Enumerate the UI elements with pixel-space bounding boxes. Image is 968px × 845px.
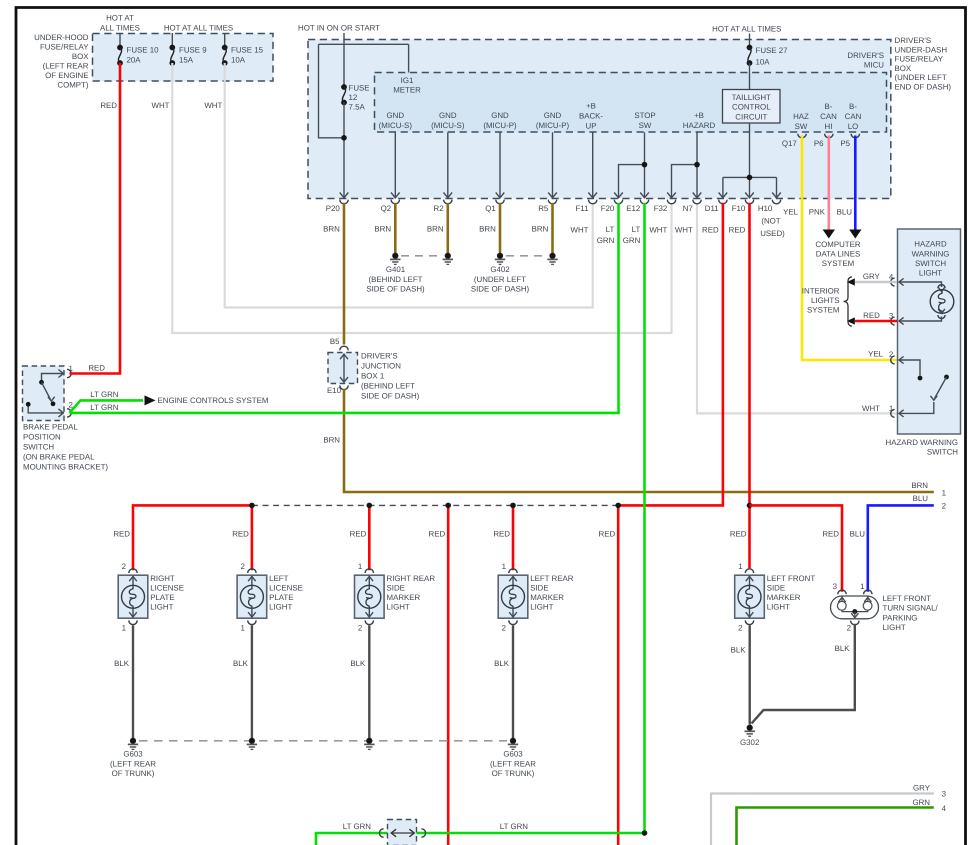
svg-text:HAZARD: HAZARD <box>914 240 947 249</box>
svg-text:GND: GND <box>544 111 562 120</box>
switch box: HAZARD WARNING SWITCH <box>898 229 961 434</box>
svg-text:PNK: PNK <box>809 207 826 216</box>
wire RED fuse 10 to brake switch pin 1 <box>70 63 121 374</box>
svg-text:ALL TIMES: ALL TIMES <box>100 24 140 33</box>
svg-text:(LEFT REAR: (LEFT REAR <box>43 62 89 71</box>
svg-text:BOX: BOX <box>72 52 89 61</box>
svg-text:1: 1 <box>942 488 946 497</box>
pin E12 <box>640 193 649 198</box>
svg-text:BRN: BRN <box>479 225 496 234</box>
wire RED drop to left rear side marker light <box>512 505 515 570</box>
fuse/relay box: DRIVER'S UNDER-DASH FUSE/RELAY BOX <box>308 40 891 199</box>
svg-text:YEL: YEL <box>868 350 884 359</box>
fuse F12 7.5A <box>341 84 347 90</box>
svg-text:HI: HI <box>825 122 833 131</box>
ground G603 (left rear side marker) <box>510 738 516 744</box>
svg-text:2: 2 <box>122 562 126 571</box>
svg-text:WHT: WHT <box>571 226 589 235</box>
svg-text:TURN SIGNAL/: TURN SIGNAL/ <box>883 604 939 613</box>
module box: DRIVER'S MICU (IG1 METER) <box>375 73 887 133</box>
splice bus (dashed) feeding exterior lights <box>252 504 617 506</box>
svg-text:COMPUTER: COMPUTER <box>815 240 860 249</box>
svg-text:1: 1 <box>738 562 742 571</box>
svg-text:HOT AT ALL TIMES: HOT AT ALL TIMES <box>164 24 233 33</box>
wire WHT: fuse 9 to pin F32 <box>172 63 671 333</box>
wire RED pin D11 to lamp splice bus <box>618 203 723 506</box>
svg-text:LIGHTS: LIGHTS <box>811 296 840 305</box>
svg-text:LEFT FRONT: LEFT FRONT <box>883 594 932 603</box>
bulb: hazard warning switch light <box>899 282 942 287</box>
svg-text:F32: F32 <box>654 204 668 213</box>
wire fuse 12 to pin P20, junction <box>343 103 345 199</box>
wire from HOT IN ON OR START through fuse 12 <box>343 33 345 87</box>
wire feed into fuse 10 <box>119 33 121 48</box>
wire RED drop continuing to rear lights (left) <box>447 505 450 845</box>
svg-text:UNDER-DASH: UNDER-DASH <box>895 45 948 54</box>
svg-text:R2: R2 <box>434 204 444 213</box>
hazard switch contacts <box>899 360 920 376</box>
svg-text:SIDE OF DASH): SIDE OF DASH) <box>361 392 420 401</box>
svg-text:MARKER: MARKER <box>530 593 564 602</box>
fuse F15 10A <box>222 45 228 51</box>
svg-text:RIGHT REAR: RIGHT REAR <box>387 574 436 583</box>
svg-text:BLK: BLK <box>233 659 249 668</box>
pin N7 <box>693 193 702 198</box>
wire LT GRN bottom run to splice at E12 wire <box>316 833 645 845</box>
svg-text:B5: B5 <box>330 337 340 346</box>
svg-text:R5: R5 <box>538 204 549 213</box>
svg-text:2: 2 <box>358 624 362 633</box>
svg-text:P5: P5 <box>840 139 850 148</box>
brace + label INTERIOR LIGHTS SYSTEM <box>844 277 852 326</box>
wire BLK lamp to ground G603 <box>251 625 253 738</box>
svg-text:HOT AT: HOT AT <box>106 14 134 23</box>
svg-text:BLK: BLK <box>350 659 366 668</box>
svg-text:(MICU-P): (MICU-P) <box>536 121 570 130</box>
svg-text:SWITCH: SWITCH <box>927 447 958 456</box>
svg-text:LIGHT: LIGHT <box>150 603 173 612</box>
block: TAILLIGHT CONTROL CIRCUIT <box>723 90 781 124</box>
pin R5 <box>548 193 557 198</box>
svg-text:LT: LT <box>632 225 641 234</box>
svg-text:PLATE: PLATE <box>269 593 293 602</box>
lamp: LEFT FRONT TURN SIGNAL/PARKING LIGHT <box>831 596 879 619</box>
svg-text:SYSTEM: SYSTEM <box>822 259 854 268</box>
wire feed into fuse 15 <box>224 33 226 48</box>
pin R2 <box>444 193 453 198</box>
svg-text:BLK: BLK <box>835 644 851 653</box>
svg-text:1: 1 <box>358 562 362 571</box>
svg-text:RED: RED <box>729 226 746 235</box>
svg-text:(BEHIND LEFT: (BEHIND LEFT <box>369 275 423 284</box>
svg-text:WHT: WHT <box>862 404 880 413</box>
svg-text:Q2: Q2 <box>381 204 392 213</box>
svg-text:BRN: BRN <box>427 225 444 234</box>
svg-text:D11: D11 <box>705 204 719 213</box>
wire GRY to off-page connector 3 <box>711 794 934 845</box>
svg-text:12: 12 <box>349 93 358 102</box>
ground G302 <box>747 725 753 731</box>
svg-text:1: 1 <box>122 624 126 633</box>
svg-text:WHT: WHT <box>675 226 693 235</box>
svg-text:LEFT: LEFT <box>269 574 288 583</box>
svg-text:BOX 1: BOX 1 <box>361 372 384 381</box>
svg-text:DATA LINES: DATA LINES <box>816 250 860 259</box>
svg-text:LEFT REAR: LEFT REAR <box>530 574 574 583</box>
svg-text:GRY: GRY <box>913 784 931 793</box>
svg-text:LIGHT: LIGHT <box>767 603 790 612</box>
svg-text:FUSE 15: FUSE 15 <box>231 46 264 55</box>
svg-text:UNDER-HOOD: UNDER-HOOD <box>34 33 89 42</box>
svg-text:FUSE 10: FUSE 10 <box>127 46 160 55</box>
pin Q17 <box>798 134 806 138</box>
svg-text:SIDE OF DASH): SIDE OF DASH) <box>471 285 530 294</box>
wire GRN to off-page connector 4 <box>737 808 934 845</box>
svg-text:RIGHT: RIGHT <box>150 574 175 583</box>
pin D11 <box>719 193 728 198</box>
svg-text:H10: H10 <box>758 204 773 213</box>
svg-text:RED: RED <box>429 530 446 539</box>
wire RED splice to left front turn signal pin 3 <box>750 505 843 591</box>
svg-text:MICU: MICU <box>864 61 884 70</box>
pin Q1 <box>496 193 505 198</box>
svg-text:CAN: CAN <box>820 112 837 121</box>
inline connector on LT GRN wire <box>388 820 417 845</box>
svg-text:BLU: BLU <box>837 207 853 216</box>
svg-text:MARKER: MARKER <box>767 593 801 602</box>
wire PNK pin P6 to computer data lines system <box>827 136 830 231</box>
svg-text:(MICU-S): (MICU-S) <box>431 121 465 130</box>
svg-text:COMPT): COMPT) <box>57 81 88 90</box>
svg-text:G302: G302 <box>740 738 759 747</box>
svg-text:BRAKE PEDAL: BRAKE PEDAL <box>23 423 78 432</box>
svg-text:OF TRUNK): OF TRUNK) <box>112 769 155 778</box>
svg-text:7.5A: 7.5A <box>349 103 366 112</box>
wire BLK left front side marker light to G302 <box>749 625 751 724</box>
wire BRN pin R5 to G402 <box>551 203 554 254</box>
svg-text:RED: RED <box>350 530 367 539</box>
svg-text:LIGHT: LIGHT <box>883 623 906 632</box>
wire BLK lamp to ground G603 <box>368 625 370 738</box>
fuse F10 20A <box>117 45 123 51</box>
svg-text:LICENSE: LICENSE <box>269 584 303 593</box>
svg-text:FUSE 9: FUSE 9 <box>179 46 207 55</box>
svg-text:FUSE: FUSE <box>349 84 370 93</box>
wire LT GRN pin F20 to brake switch pin 2 <box>70 203 619 413</box>
svg-text:GRN: GRN <box>912 798 930 807</box>
svg-text:METER: METER <box>393 86 421 95</box>
wire RED drop to left license plate light <box>251 505 254 570</box>
svg-text:LT GRN: LT GRN <box>90 403 119 412</box>
svg-text:TAILLIGHT: TAILLIGHT <box>732 93 771 102</box>
svg-text:BLU: BLU <box>850 530 866 539</box>
svg-text:1: 1 <box>69 364 73 373</box>
svg-text:2: 2 <box>942 501 946 510</box>
svg-text:4: 4 <box>942 804 947 813</box>
svg-text:+B: +B <box>586 102 596 111</box>
wire LT GRN pin E12 down to bottom splice <box>643 203 646 833</box>
svg-text:N7: N7 <box>683 204 693 213</box>
svg-text:LT GRN: LT GRN <box>500 822 529 831</box>
svg-text:LT GRN: LT GRN <box>343 822 372 831</box>
pin P20 <box>340 193 349 198</box>
svg-text:CONTROL: CONTROL <box>732 103 771 112</box>
svg-text:2: 2 <box>738 624 742 633</box>
ground bus (dashed) to G603 <box>139 740 507 742</box>
lamp: RIGHT REAR SIDE MARKER LIGHT <box>355 575 385 618</box>
svg-text:1: 1 <box>241 624 245 633</box>
svg-text:SWITCH: SWITCH <box>23 443 54 452</box>
svg-text:BRN: BRN <box>532 225 549 234</box>
wire RED hazard pin 3 to interior lights system <box>855 320 897 323</box>
svg-text:RED: RED <box>100 101 117 110</box>
svg-text:BLK: BLK <box>114 659 130 668</box>
pin Q2 <box>391 193 400 198</box>
svg-text:CIRCUIT: CIRCUIT <box>735 113 767 122</box>
svg-text:FUSE 27: FUSE 27 <box>756 46 788 55</box>
svg-text:STOP: STOP <box>634 111 655 120</box>
wire YEL pin Q17 to hazard switch pin 2 <box>802 136 897 361</box>
svg-text:LICENSE: LICENSE <box>150 584 184 593</box>
pin F20 <box>614 193 623 198</box>
svg-text:(MICU-S): (MICU-S) <box>379 121 413 130</box>
wire into fuse 27 <box>749 34 751 48</box>
svg-text:USED): USED) <box>760 229 785 238</box>
pin F10 <box>745 193 754 198</box>
wires taillight control circuit to pins D11/F10/H10 <box>749 123 751 198</box>
svg-text:JUNCTION: JUNCTION <box>361 362 401 371</box>
svg-text:(LEFT REAR: (LEFT REAR <box>490 759 536 768</box>
wire feed into fuse 9 <box>171 33 173 48</box>
svg-text:Q1: Q1 <box>485 204 496 213</box>
junction box: DRIVER'S JUNCTION BOX 1 <box>340 346 348 350</box>
svg-text:F10: F10 <box>732 204 746 213</box>
svg-text:BOX: BOX <box>895 64 912 73</box>
lamp: LEFT LICENSE PLATE LIGHT <box>237 575 267 618</box>
svg-text:DRIVER'S: DRIVER'S <box>361 352 398 361</box>
svg-text:RED: RED <box>822 530 839 539</box>
svg-text:LT GRN: LT GRN <box>90 390 119 399</box>
ground point (right rear side marker) <box>366 738 372 744</box>
svg-text:Q17: Q17 <box>782 139 797 148</box>
svg-text:LIGHT: LIGHT <box>269 603 292 612</box>
fuse/relay box: UNDER-HOOD FUSE/RELAY BOX <box>93 34 274 82</box>
svg-text:FUSE/RELAY: FUSE/RELAY <box>40 43 89 52</box>
svg-text:LT: LT <box>606 225 615 234</box>
svg-text:(ON BRAKE PEDAL: (ON BRAKE PEDAL <box>23 453 95 462</box>
svg-text:+B: +B <box>694 111 704 120</box>
svg-text:HOT AT ALL TIMES: HOT AT ALL TIMES <box>712 25 781 34</box>
svg-text:GRN: GRN <box>623 236 641 245</box>
svg-text:MOUNTING BRACKET): MOUNTING BRACKET) <box>23 463 108 472</box>
svg-text:G401: G401 <box>386 265 405 274</box>
svg-text:BRN: BRN <box>911 481 928 490</box>
svg-text:OF TRUNK): OF TRUNK) <box>492 769 535 778</box>
ground point (left license plate light) <box>249 738 255 744</box>
svg-text:WHT: WHT <box>649 226 667 235</box>
wire RED drop to right rear side marker light <box>368 505 371 570</box>
wire fuse 27 to taillight control circuit <box>749 63 751 90</box>
svg-text:F20: F20 <box>601 204 615 213</box>
switch: BRAKE PEDAL POSITION SWITCH <box>23 366 65 421</box>
svg-text:F11: F11 <box>575 204 588 213</box>
svg-text:SIDE: SIDE <box>530 584 548 593</box>
svg-text:E12: E12 <box>626 204 640 213</box>
svg-text:PLATE: PLATE <box>150 593 174 602</box>
svg-text:SIDE: SIDE <box>387 584 405 593</box>
svg-text:(UNDER LEFT: (UNDER LEFT <box>474 275 526 284</box>
svg-text:2: 2 <box>847 624 851 633</box>
fuse F27 10A <box>747 45 753 51</box>
svg-text:PARKING: PARKING <box>883 613 918 622</box>
svg-text:HOT IN ON OR START: HOT IN ON OR START <box>298 24 380 33</box>
svg-text:P6: P6 <box>814 139 824 148</box>
svg-text:LIGHT: LIGHT <box>530 603 553 612</box>
svg-text:G603: G603 <box>123 749 143 758</box>
svg-text:2: 2 <box>241 562 245 571</box>
pin F32 <box>667 193 676 198</box>
pin 1 (hazard switch, WHT) <box>899 410 904 417</box>
svg-text:BRN: BRN <box>323 436 340 445</box>
svg-text:DRIVER'S: DRIVER'S <box>847 51 884 60</box>
svg-text:2: 2 <box>502 624 506 633</box>
svg-text:LIGHT: LIGHT <box>919 269 942 278</box>
svg-text:(NOT: (NOT <box>761 217 780 226</box>
svg-text:1: 1 <box>889 404 893 413</box>
svg-text:3: 3 <box>833 582 838 591</box>
svg-text:RED: RED <box>702 226 719 235</box>
wire LT GRN brake switch pin 2 to ENGINE CONTROLS SYSTEM <box>70 400 144 413</box>
svg-text:E10: E10 <box>327 386 342 395</box>
wire BRN junction box E10 down to BRN bus wire 1 <box>344 389 934 492</box>
svg-text:GND: GND <box>439 111 457 120</box>
svg-text:END OF DASH): END OF DASH) <box>895 83 952 92</box>
svg-text:4: 4 <box>889 273 894 282</box>
svg-text:BRN: BRN <box>374 225 391 234</box>
svg-text:RED: RED <box>232 530 249 539</box>
svg-text:LO: LO <box>848 122 859 131</box>
svg-text:G402: G402 <box>490 265 509 274</box>
svg-text:10A: 10A <box>756 58 771 67</box>
svg-text:BLU: BLU <box>913 494 929 503</box>
pin F11 <box>588 193 597 198</box>
pin 3 (hazard switch, RED) <box>899 317 904 324</box>
svg-text:POSITION: POSITION <box>23 433 61 442</box>
svg-text:UP: UP <box>586 121 597 130</box>
svg-text:RED: RED <box>730 530 747 539</box>
svg-text:GRY: GRY <box>863 272 881 281</box>
svg-text:1: 1 <box>502 562 506 571</box>
svg-text:CAN: CAN <box>845 112 862 121</box>
svg-text:OF ENGINE: OF ENGINE <box>45 71 88 80</box>
wire BLK turn signal pin 2 to G302 <box>752 624 855 724</box>
svg-text:HAZARD WARNING: HAZARD WARNING <box>886 438 958 447</box>
pin P5 <box>851 134 859 138</box>
ground G401 <box>401 255 442 257</box>
svg-text:RED: RED <box>599 530 616 539</box>
svg-text:2: 2 <box>889 350 893 359</box>
svg-text:(MICU-P): (MICU-P) <box>483 121 517 130</box>
ground G603 (left rear of trunk) <box>130 738 136 744</box>
svg-text:G603: G603 <box>503 749 523 758</box>
svg-text:WHT: WHT <box>152 101 170 110</box>
svg-text:RED: RED <box>113 530 130 539</box>
svg-text:P20: P20 <box>326 204 341 213</box>
wire BRN pin Q1 to G402 <box>499 203 502 254</box>
svg-text:BLK: BLK <box>494 659 510 668</box>
svg-text:ENGINE CONTROLS SYSTEM: ENGINE CONTROLS SYSTEM <box>158 396 269 405</box>
svg-text:BRN: BRN <box>323 225 340 234</box>
svg-text:(UNDER LEFT: (UNDER LEFT <box>895 73 947 82</box>
svg-text:WARNING: WARNING <box>912 249 950 258</box>
svg-text:1: 1 <box>860 582 864 591</box>
svg-text:MARKER: MARKER <box>387 593 421 602</box>
wire BLU off-page 2 to left front turn signal pin 1 <box>868 505 934 591</box>
svg-text:WHT: WHT <box>204 101 222 110</box>
ground G402 <box>506 255 547 257</box>
svg-text:(BEHIND LEFT: (BEHIND LEFT <box>361 382 415 391</box>
wire WHT: pin N7 to hazard switch pin 1 <box>697 203 897 413</box>
wire BLU pin P5 to computer data lines system <box>854 136 857 231</box>
wire RED drop to right license plate light <box>133 505 252 570</box>
svg-text:LIGHT: LIGHT <box>387 603 410 612</box>
svg-text:B-: B- <box>849 102 857 111</box>
svg-text:IG1: IG1 <box>401 76 414 85</box>
wire RED pin F10 through splice to left front side marker light <box>748 203 751 568</box>
svg-text:BLK: BLK <box>731 646 747 655</box>
pin 4 (hazard switch, GRY) <box>899 278 904 285</box>
wire WHT: fuse 15 to pin F11 <box>225 63 593 308</box>
svg-text:BACK-: BACK- <box>579 112 603 121</box>
svg-text:LEFT FRONT: LEFT FRONT <box>767 574 816 583</box>
pin P6 <box>825 134 833 138</box>
svg-text:GRN: GRN <box>597 236 615 245</box>
svg-text:3: 3 <box>942 790 947 799</box>
lamp: RIGHT LICENSE PLATE LIGHT <box>118 575 148 618</box>
svg-text:GND: GND <box>491 111 509 120</box>
wire BRN pin R2 to G401 <box>446 203 449 254</box>
svg-text:INTERIOR: INTERIOR <box>802 287 840 296</box>
svg-text:15A: 15A <box>179 56 194 65</box>
wire BRN pin Q2 to G401 <box>394 203 397 254</box>
svg-text:YEL: YEL <box>783 207 799 216</box>
lamp: LEFT FRONT SIDE MARKER LIGHT <box>735 575 765 618</box>
wire GRY hazard pin 4 to interior lights system <box>855 281 897 283</box>
svg-text:B-: B- <box>825 102 833 111</box>
svg-text:RED: RED <box>863 311 880 320</box>
svg-text:HAZARD: HAZARD <box>683 121 716 130</box>
svg-text:SWITCH: SWITCH <box>915 259 946 268</box>
svg-text:RED: RED <box>493 530 510 539</box>
pin H10 <box>772 193 781 198</box>
svg-text:SYSTEM: SYSTEM <box>807 306 839 315</box>
pin 2 (hazard switch, YEL) <box>899 356 904 363</box>
svg-text:SIDE OF DASH): SIDE OF DASH) <box>366 285 425 294</box>
wire BRN pin P20 to driver's junction box pin B5 <box>343 203 346 345</box>
svg-text:(LEFT REAR: (LEFT REAR <box>110 759 156 768</box>
fuse F9 15A <box>169 45 175 51</box>
svg-text:RED: RED <box>88 363 105 372</box>
wire RED drop continuing to rear lights (right) <box>617 505 620 845</box>
svg-text:SIDE: SIDE <box>767 584 785 593</box>
svg-text:GND: GND <box>387 111 405 120</box>
svg-text:10A: 10A <box>231 56 246 65</box>
lamp: LEFT REAR SIDE MARKER LIGHT <box>498 575 528 618</box>
svg-text:20A: 20A <box>127 56 142 65</box>
svg-text:3: 3 <box>889 312 894 321</box>
wire BLK lamp to ground G603 <box>132 625 134 738</box>
wire BLK lamp to ground G603 <box>512 625 514 738</box>
